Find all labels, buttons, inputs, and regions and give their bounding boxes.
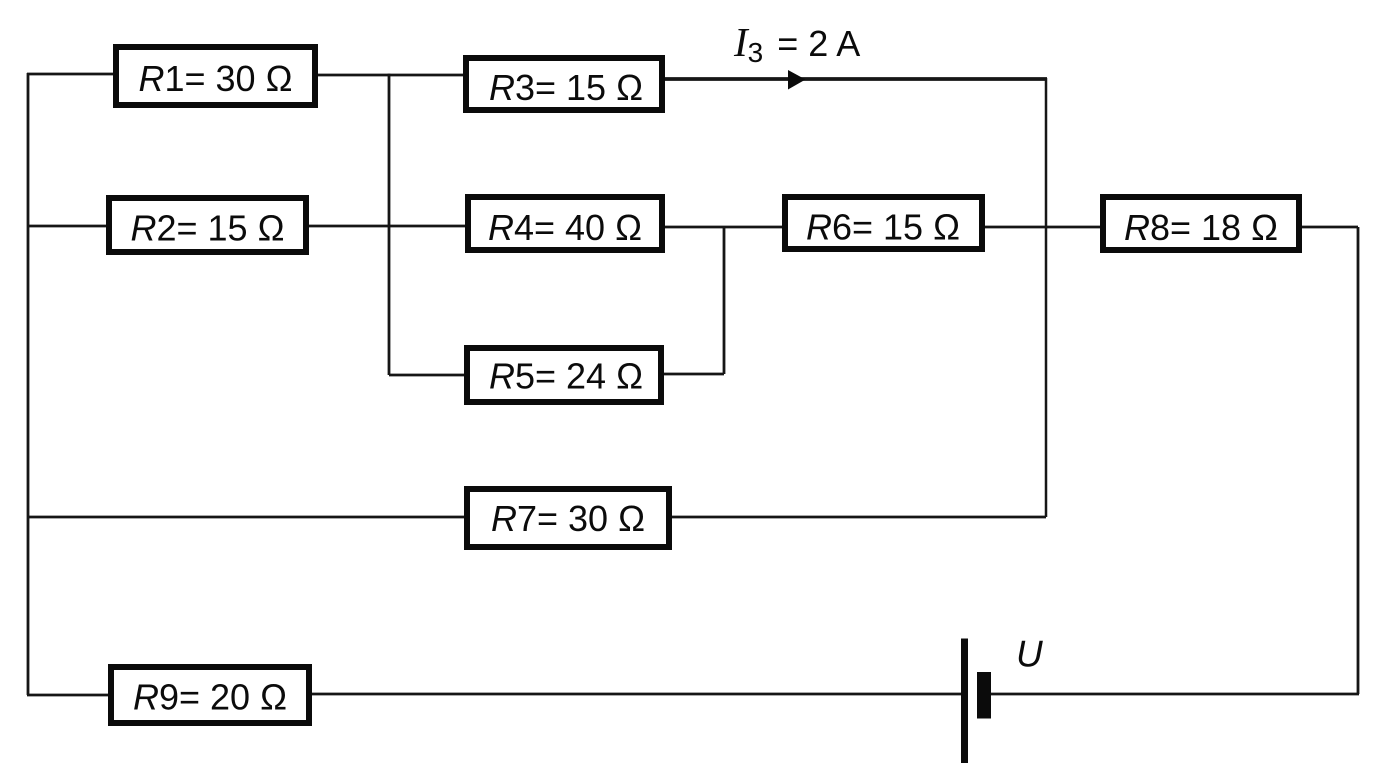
svg-text:R2= 15 Ω: R2= 15 Ω	[130, 208, 284, 249]
wire R2 right to R4 left	[308, 225, 466, 228]
wire left bus to R7 left	[27, 516, 465, 519]
wire junction vertical R1 to R5 branch	[388, 74, 391, 375]
resistor R1 box	[116, 47, 315, 105]
wire R3 output with current arrow	[664, 77, 1047, 81]
wire R5 right to branch	[663, 373, 724, 376]
svg-text:R7= 30 Ω: R7= 30 Ω	[491, 498, 645, 539]
wire left bus to R1	[27, 73, 114, 76]
battery long plate	[961, 639, 968, 764]
wire R7 right to vertical	[671, 516, 1046, 519]
wire R1 right to R3 left	[317, 74, 464, 77]
wire R6 right to R8 left	[984, 226, 1101, 229]
svg-text:R5= 24 Ω: R5= 24 Ω	[489, 356, 643, 397]
wire battery to right bus	[991, 693, 1359, 696]
resistor R6 box	[785, 197, 982, 249]
wire vertical R3 output down to R7 right	[1045, 78, 1048, 517]
svg-text:R4= 40 Ω: R4= 40 Ω	[488, 207, 642, 248]
wire R8 right to right bus	[1301, 226, 1358, 229]
svg-text:R6= 15 Ω: R6= 15 Ω	[806, 207, 960, 248]
wire junction vertical R4 to R5 branch	[723, 227, 726, 374]
resistor R8 box	[1103, 197, 1299, 250]
svg-text:R3= 15 Ω: R3= 15 Ω	[489, 67, 643, 108]
wire left bus to R9	[27, 694, 109, 697]
svg-text:R8= 18 Ω: R8= 18 Ω	[1124, 207, 1278, 248]
wire left bus vertical	[27, 73, 30, 695]
resistor R4 box	[468, 197, 662, 250]
svg-text:U: U	[1016, 634, 1043, 675]
wire R4 right to R6 left	[664, 226, 783, 229]
svg-text:R1= 30 Ω: R1= 30 Ω	[138, 58, 292, 99]
svg-text:R9= 20 Ω: R9= 20 Ω	[133, 677, 287, 718]
current arrow head I3	[788, 70, 806, 90]
resistor R2 box	[109, 198, 306, 252]
wire R9 right to battery	[311, 693, 963, 696]
resistor R9 box	[111, 667, 309, 723]
resistor R7 box	[467, 489, 669, 547]
resistor R5 box	[467, 348, 661, 402]
wire left bus to R2	[27, 225, 107, 228]
resistor R3 box	[466, 58, 662, 110]
battery short thick plate	[977, 672, 991, 719]
wire right bus vertical	[1357, 227, 1360, 694]
wire branch to R5 left	[389, 374, 465, 377]
